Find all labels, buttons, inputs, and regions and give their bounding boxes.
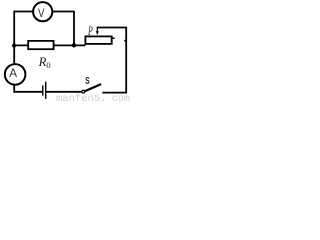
svg-text:manfen5.: manfen5.: [56, 93, 106, 102]
svg-text:A: A: [9, 67, 17, 80]
svg-text:S: S: [85, 75, 90, 87]
svg-text:V: V: [38, 7, 45, 20]
svg-text:com: com: [112, 94, 130, 102]
svg-text:P: P: [87, 26, 93, 39]
